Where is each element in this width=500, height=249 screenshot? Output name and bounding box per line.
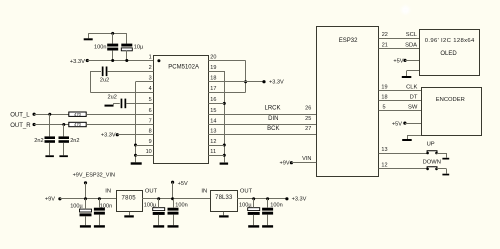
junction (244, 80, 247, 83)
ground (80, 225, 91, 227)
svg-text:OUT: OUT (145, 189, 158, 195)
pin 5 (149, 97, 152, 103)
wire (90, 71, 92, 92)
wire (99, 199, 101, 225)
net +5V (171, 181, 188, 187)
net +5V encoder (392, 121, 407, 127)
wire pin3 (136, 81, 154, 83)
wire pin16 (208, 103, 224, 105)
svg-text:11: 11 (210, 149, 216, 155)
pin IN 7805 (105, 189, 111, 195)
svg-text:12: 12 (381, 162, 387, 168)
pin 19 (210, 65, 216, 71)
wire BCK (208, 134, 316, 136)
wire (223, 212, 225, 215)
svg-text:LRCK: LRCK (264, 106, 280, 112)
pin 20 (210, 54, 216, 60)
pin 25 (305, 116, 311, 122)
ground (153, 225, 164, 227)
svg-text:22: 22 (382, 32, 388, 38)
svg-text:PCM5102A: PCM5102A (168, 64, 199, 70)
svg-text:CLK: CLK (406, 85, 417, 91)
svg-text:25: 25 (305, 116, 311, 122)
wire (113, 103, 120, 105)
svg-text:7: 7 (149, 118, 152, 124)
svg-text:+3.3V: +3.3V (70, 59, 85, 65)
svg-text:12: 12 (210, 139, 216, 145)
capacitor C1 100n (107, 44, 118, 51)
wire SCL (379, 38, 420, 40)
ground (402, 139, 412, 141)
capacitor C9 100u (153, 208, 165, 215)
wire (245, 61, 247, 93)
wire pin11 (208, 155, 224, 157)
module U3 OLED (420, 30, 480, 76)
junction (125, 59, 128, 62)
svg-text:100µ: 100µ (70, 204, 83, 210)
wire DT (379, 100, 422, 102)
pin 2 (149, 65, 152, 71)
svg-text:+5V: +5V (178, 181, 188, 187)
wire pin12 (208, 145, 224, 147)
svg-text:OUT_R: OUT_R (10, 123, 31, 129)
svg-text:DOWN: DOWN (423, 159, 441, 165)
svg-text:19: 19 (381, 85, 387, 91)
junction (223, 144, 226, 147)
wire +9V rail (60, 198, 116, 200)
capacitor C7 100u (80, 209, 92, 216)
svg-text:SW: SW (408, 104, 418, 110)
label PCM5102A (168, 64, 199, 70)
wire SDA (379, 48, 420, 50)
svg-text:2u2: 2u2 (100, 77, 109, 83)
label SCL (406, 32, 418, 38)
pin 8 (149, 129, 152, 135)
label 100n (94, 45, 106, 51)
pin 9 (149, 139, 152, 145)
capacitor C10 100n (168, 208, 179, 215)
svg-text:20: 20 (210, 54, 216, 60)
wire (173, 199, 175, 225)
pushbutton SW2 DOWN (426, 167, 438, 171)
svg-text:100µ: 100µ (239, 202, 252, 208)
svg-text:+9V: +9V (279, 161, 289, 167)
capacitor C4 2u2 (121, 99, 127, 109)
svg-text:100n: 100n (100, 204, 112, 210)
label OLED (440, 51, 457, 57)
svg-text:0.96' I2C 128x64: 0.96' I2C 128x64 (425, 38, 475, 44)
label DIN (268, 116, 278, 122)
wire (63, 125, 65, 137)
IC U2 ESP32 (317, 27, 379, 177)
svg-text:+3.3V: +3.3V (269, 80, 284, 86)
pin 22 (382, 32, 388, 38)
pin 18 (210, 76, 216, 82)
wire +5V rail (142, 198, 210, 200)
pin 12 (381, 162, 387, 168)
svg-text:2n2: 2n2 (70, 138, 79, 144)
label 100u (70, 204, 83, 210)
node OUT_R (10, 123, 36, 129)
label 100u (144, 202, 157, 208)
resistor R1 470 (69, 112, 86, 117)
svg-text:17: 17 (210, 86, 216, 92)
net +3.3V (70, 59, 89, 65)
junction (252, 197, 255, 200)
wire (85, 183, 87, 199)
ground (220, 163, 229, 165)
svg-text:6: 6 (149, 108, 152, 114)
svg-text:78L33: 78L33 (215, 195, 233, 201)
svg-text:5: 5 (149, 97, 152, 103)
node OUT_L (10, 113, 36, 119)
label UP (427, 141, 435, 147)
pin 6 (149, 108, 152, 114)
pin 13 (381, 147, 387, 153)
wire pin10 (136, 155, 154, 157)
wire (34, 114, 69, 116)
label DT (410, 95, 418, 101)
wire SW (379, 110, 422, 112)
pin 7 (149, 118, 152, 124)
svg-text:18: 18 (210, 76, 216, 82)
wire (126, 33, 128, 43)
pin-1 marker (157, 59, 160, 62)
wire (437, 153, 447, 158)
ground (442, 174, 449, 176)
wire (34, 124, 69, 126)
label ESP32 (339, 38, 358, 44)
pin 10 (146, 149, 152, 155)
capacitor C8 100n (94, 208, 105, 215)
svg-text:18: 18 (381, 95, 387, 101)
wire (49, 143, 51, 156)
junction (84, 197, 87, 200)
ground (45, 155, 54, 157)
wire encoder gnd (407, 135, 422, 139)
svg-text:19: 19 (210, 65, 216, 71)
wire (405, 60, 420, 62)
wire OLED gnd (407, 71, 420, 77)
pin 4 (149, 86, 152, 92)
ground (219, 215, 229, 217)
pin 12 (210, 139, 216, 145)
svg-text:100n: 100n (94, 45, 106, 51)
svg-text:21: 21 (382, 43, 388, 49)
svg-text:10: 10 (146, 149, 152, 155)
label 2n2 (70, 138, 79, 144)
label OLED title (425, 38, 475, 44)
label 100n (270, 202, 282, 208)
pin OUT 7805 (145, 189, 158, 195)
junction (266, 197, 269, 200)
wire VIN (291, 162, 316, 164)
wire (126, 103, 154, 105)
svg-text:5: 5 (383, 104, 386, 110)
wire pin13 (379, 153, 428, 155)
svg-text:14: 14 (210, 118, 216, 124)
capacitor C3 2u2 (102, 67, 108, 77)
node blob (401, 6, 409, 14)
junction (48, 113, 51, 116)
svg-text:+5V: +5V (393, 58, 403, 64)
svg-text:UP: UP (427, 141, 435, 147)
junction (223, 102, 226, 105)
capacitor C6 2n2 (59, 136, 70, 142)
svg-text:26: 26 (305, 106, 311, 112)
pin OUT 78L33 (240, 189, 253, 195)
svg-text:SDA: SDA (405, 43, 417, 49)
ground (262, 225, 273, 227)
wire (172, 182, 174, 199)
wire (88, 33, 127, 35)
svg-text:13: 13 (210, 129, 216, 135)
net +9V (45, 197, 62, 203)
wire pin17 (208, 92, 245, 94)
ground (402, 76, 412, 78)
wire pin20 (208, 60, 245, 62)
wire (117, 134, 153, 136)
pin 15 (210, 108, 216, 114)
wire +3.3V rail (87, 60, 153, 62)
ground (94, 225, 105, 227)
label 2u2 (108, 94, 117, 100)
junction (157, 197, 160, 200)
capacitor C5 2n2 (45, 136, 56, 142)
wire pin18 +3.3V (208, 81, 264, 83)
wire CLK (379, 90, 422, 92)
label 100n (175, 202, 187, 208)
pin 26 (305, 106, 311, 112)
svg-text:ENCODER: ENCODER (436, 97, 465, 103)
pin VIN (302, 156, 311, 162)
label ENCODER (436, 97, 465, 103)
pushbutton SW1 UP (426, 151, 438, 155)
svg-text:+9V: +9V (45, 197, 55, 203)
svg-text:16: 16 (210, 97, 216, 103)
resistor R2 470 (69, 122, 86, 127)
svg-text:13: 13 (381, 147, 387, 153)
svg-text:OUT: OUT (240, 189, 253, 195)
pin 19 (381, 85, 387, 91)
pin 18 (381, 95, 387, 101)
ground (59, 155, 68, 157)
svg-text:+3.3V: +3.3V (292, 197, 307, 203)
net +3.3V right (262, 80, 284, 86)
wire (107, 71, 153, 73)
junction (223, 154, 226, 157)
svg-text:3: 3 (149, 76, 152, 82)
ground (442, 158, 449, 160)
svg-text:VIN: VIN (302, 156, 311, 162)
net +9V_ESP32_VIN (73, 173, 115, 185)
regulator U6 78L33 (211, 191, 238, 212)
label 2n2 (34, 138, 43, 144)
pin 21 (382, 43, 388, 49)
wire (85, 199, 87, 225)
pin 1 (149, 54, 152, 60)
ground (168, 225, 179, 227)
svg-text:470: 470 (74, 112, 82, 117)
svg-text:4: 4 (149, 86, 152, 92)
wire pin9 (136, 145, 154, 147)
label SDA (405, 43, 417, 49)
net +3.3V pin8 (101, 133, 119, 139)
svg-text:OUT_L: OUT_L (10, 113, 30, 119)
label DOWN (423, 159, 441, 165)
svg-text:BCK: BCK (267, 126, 279, 132)
label LRCK (264, 106, 280, 112)
label 100u (239, 202, 252, 208)
node junction (111, 32, 114, 35)
wire (63, 143, 65, 156)
wire (126, 51, 128, 61)
pin 5 (383, 104, 386, 110)
pin 3 (149, 76, 152, 82)
svg-text:IN: IN (201, 189, 207, 195)
label 10u (134, 44, 144, 50)
wire (405, 123, 422, 125)
wire (437, 169, 447, 174)
wire (112, 33, 114, 43)
svg-text:7805: 7805 (122, 195, 137, 201)
wire (158, 199, 160, 225)
pin 14 (210, 118, 216, 124)
svg-text:27: 27 (305, 126, 311, 132)
net +3.3V out (285, 197, 306, 203)
net +5V OLED (393, 58, 406, 64)
svg-text:+9V_ESP32_VIN: +9V_ESP32_VIN (73, 173, 115, 179)
wire (86, 124, 153, 126)
wire (49, 114, 51, 136)
svg-text:8: 8 (149, 129, 152, 135)
ground (248, 225, 259, 227)
svg-text:2n2: 2n2 (34, 138, 43, 144)
junction (134, 144, 137, 147)
wire (135, 82, 137, 163)
wire +3.3V rail (237, 198, 287, 200)
ground (131, 162, 142, 164)
svg-text:1: 1 (149, 54, 152, 60)
pin 27 (305, 126, 311, 132)
wire (112, 51, 114, 61)
svg-text:2: 2 (149, 65, 152, 71)
IC U1 PCM5102A (154, 56, 209, 164)
pin 11 (210, 149, 216, 155)
junction (111, 59, 114, 62)
label CLK (406, 85, 417, 91)
wire (267, 199, 269, 225)
svg-text:ESP32: ESP32 (339, 38, 358, 44)
wire (86, 114, 153, 116)
svg-text:DIN: DIN (268, 116, 278, 122)
wire pin12 (379, 168, 428, 170)
label 2u2 (100, 77, 109, 83)
wire (90, 92, 153, 94)
ground (105, 103, 114, 106)
wire pin19 (208, 71, 224, 73)
svg-text:9: 9 (149, 139, 152, 145)
pin 17 (210, 86, 216, 92)
svg-text:DT: DT (410, 95, 418, 101)
svg-text:100µ: 100µ (144, 202, 157, 208)
svg-text:+5V: +5V (392, 121, 402, 127)
pin 16 (210, 97, 216, 103)
wire (224, 71, 226, 162)
svg-text:10µ: 10µ (134, 44, 144, 50)
capacitor C2 10u (121, 44, 132, 51)
label SW (408, 104, 418, 110)
ground (84, 33, 93, 40)
wire DIN (208, 124, 316, 126)
capacitor C11 100u (248, 208, 260, 215)
ground (124, 215, 134, 217)
svg-text:100n: 100n (270, 202, 282, 208)
junction (98, 197, 101, 200)
wire LRCK (208, 114, 316, 116)
svg-text:OLED: OLED (440, 51, 457, 57)
junction (62, 123, 65, 126)
module U4 ENCODER (422, 88, 482, 136)
label BCK (267, 126, 279, 132)
wire (129, 212, 131, 215)
svg-text:IN: IN (105, 189, 111, 195)
svg-text:100n: 100n (175, 202, 187, 208)
net +9V VIN (279, 161, 293, 167)
wire (90, 71, 101, 73)
svg-text:+3.3V: +3.3V (101, 133, 116, 139)
svg-text:15: 15 (210, 108, 216, 114)
svg-text:2u2: 2u2 (108, 94, 117, 100)
junction (134, 154, 137, 157)
svg-text:470: 470 (74, 122, 82, 127)
svg-text:SCL: SCL (406, 32, 418, 38)
pin 13 (210, 129, 216, 135)
label 100n (100, 204, 112, 210)
regulator U5 7805 (117, 191, 143, 212)
pin IN 78L33 (201, 189, 207, 195)
junction (171, 197, 174, 200)
wire (253, 199, 255, 225)
capacitor C12 100n (262, 208, 273, 215)
